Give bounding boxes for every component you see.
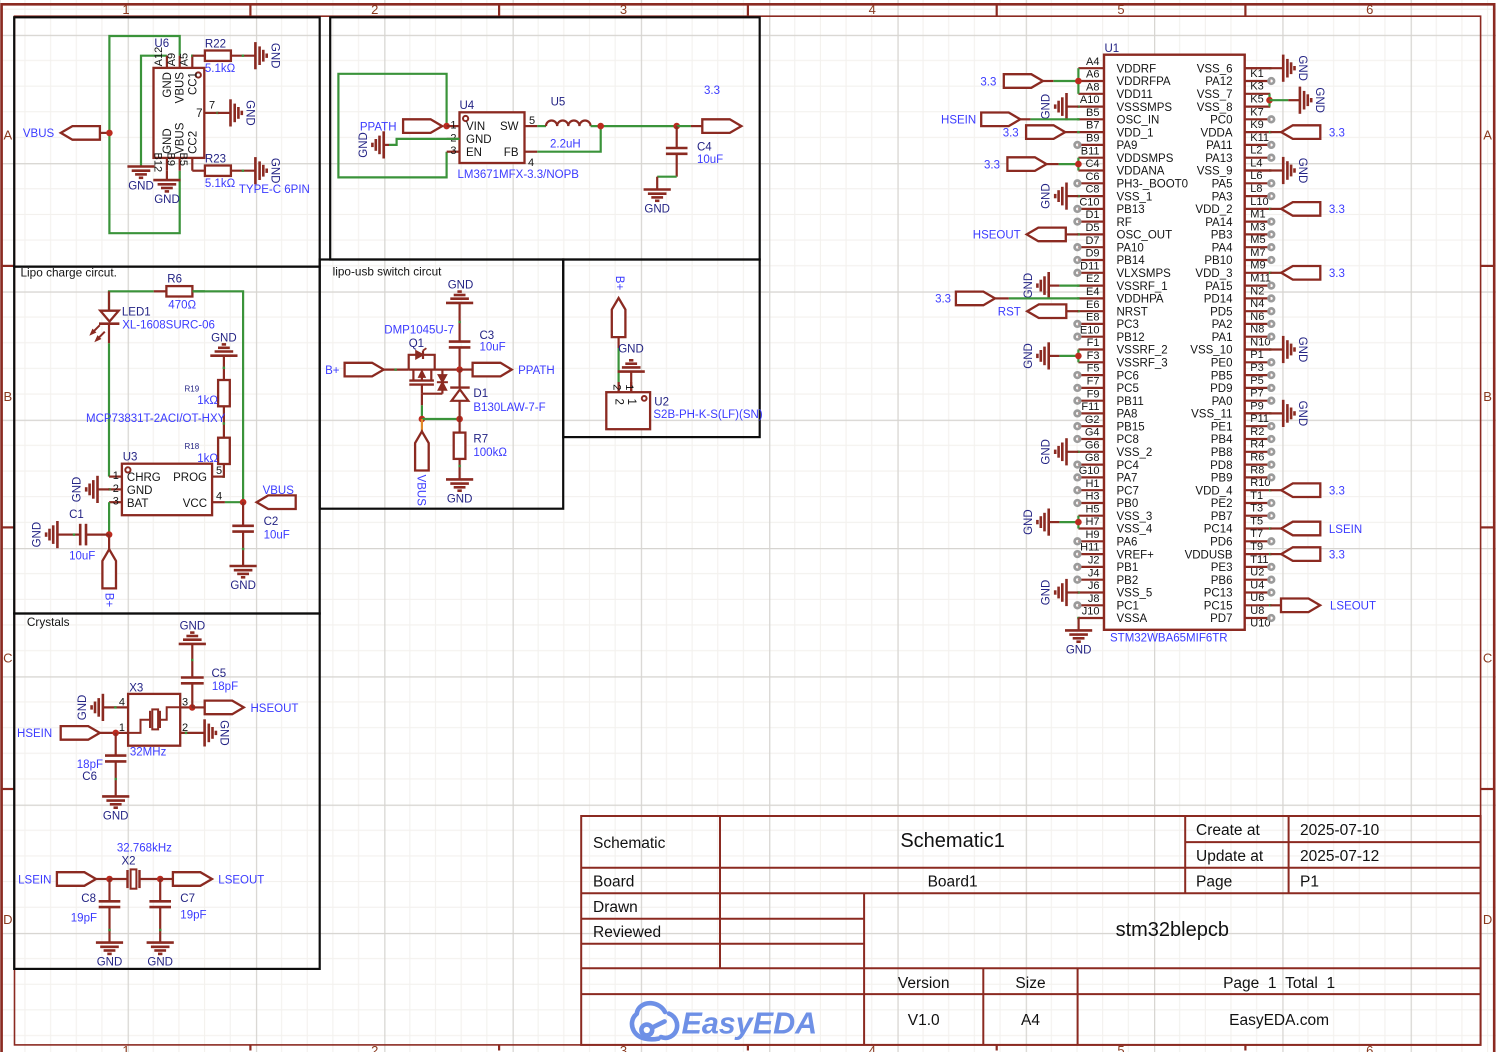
svg-text:VSS_9: VSS_9 <box>1197 166 1233 178</box>
svg-text:PA4: PA4 <box>1212 242 1233 254</box>
svg-text:LSEOUT: LSEOUT <box>218 875 264 887</box>
U1 pin U2 (PE3) <box>1245 566 1271 568</box>
U2 pin 2 <box>617 382 619 392</box>
wire GND pair K5-K7 <box>1268 94 1270 107</box>
U3 pin 1 CHRG <box>109 476 122 478</box>
svg-text:L10: L10 <box>1250 196 1268 208</box>
svg-text:PE2: PE2 <box>1211 498 1233 510</box>
svg-text:GND: GND <box>1066 644 1092 656</box>
capacitor C6 <box>115 733 117 756</box>
resistor R22 <box>192 55 205 57</box>
svg-text:PB13: PB13 <box>1117 204 1145 216</box>
svg-text:A10: A10 <box>1080 94 1100 106</box>
svg-text:L2: L2 <box>1250 145 1262 157</box>
svg-text:M11: M11 <box>1250 273 1271 285</box>
svg-text:VSSRF_2: VSSRF_2 <box>1117 345 1168 357</box>
svg-text:PE3: PE3 <box>1211 562 1233 574</box>
svg-text:Page: Page <box>1196 874 1232 891</box>
EasyEDA logo <box>632 1003 677 1039</box>
U1 pin B11 (VDDSMPS) <box>1078 157 1104 159</box>
U1 pin K3 (PA12) <box>1245 80 1271 82</box>
svg-text:2025-07-10: 2025-07-10 <box>1300 822 1380 839</box>
svg-text:U4: U4 <box>460 100 475 112</box>
svg-text:10uF: 10uF <box>264 529 290 541</box>
svg-text:PH3-_BOOT0: PH3-_BOOT0 <box>1117 179 1189 191</box>
capacitor C8 <box>108 879 110 901</box>
svg-text:P5: P5 <box>1250 375 1263 387</box>
svg-text:CHRG: CHRG <box>127 472 161 484</box>
svg-text:18pF: 18pF <box>77 759 103 771</box>
U1 pin A6 (VDDRFPA) <box>1078 80 1104 82</box>
U1 pin H9 (PA6) <box>1078 540 1104 542</box>
svg-text:T5: T5 <box>1250 515 1263 527</box>
svg-text:PE0: PE0 <box>1211 358 1233 370</box>
U1 pin U6 (PC13) <box>1245 591 1271 593</box>
svg-text:VCC: VCC <box>183 498 207 510</box>
net port B+ (battery) <box>102 549 116 588</box>
X3 pin 1 <box>116 732 128 734</box>
wire LED-R6-VCC net <box>109 291 154 310</box>
net port 3.3 at T9 (VDDUSB) <box>1269 553 1271 555</box>
U1 pin E8 (PC3) <box>1078 323 1104 325</box>
svg-text:A: A <box>1483 128 1492 143</box>
svg-text:VBUS: VBUS <box>23 128 55 140</box>
junction B11-C4 node <box>1075 161 1082 168</box>
svg-text:GND: GND <box>72 477 84 503</box>
junction SW-FB node <box>597 123 604 130</box>
X3 pin 3 <box>180 706 192 708</box>
svg-text:B7: B7 <box>1086 120 1099 132</box>
svg-text:5.1kΩ: 5.1kΩ <box>205 178 236 190</box>
svg-text:VDDHPA: VDDHPA <box>1117 294 1164 306</box>
U1 pin F9 (PB11) <box>1078 400 1104 402</box>
svg-text:VSSRF_3: VSSRF_3 <box>1117 358 1168 370</box>
U1 pin T5 (PB7) <box>1245 515 1271 517</box>
wire GND (U6 A12 to GND) <box>141 56 167 167</box>
resistor R19 vertical <box>223 356 225 380</box>
svg-text:Board1: Board1 <box>928 874 978 891</box>
U1 pin C6 (PH3-_BOOT0) <box>1078 182 1104 184</box>
svg-text:TYPE-C 6PIN: TYPE-C 6PIN <box>239 184 310 196</box>
svg-text:2: 2 <box>113 483 119 495</box>
svg-text:VSSSMPS: VSSSMPS <box>1117 102 1173 114</box>
svg-text:GND: GND <box>1023 273 1035 299</box>
svg-text:J6: J6 <box>1088 580 1100 592</box>
svg-text:U3: U3 <box>123 451 138 463</box>
ground GND at E2 <box>1077 284 1079 286</box>
svg-text:PC6: PC6 <box>1117 370 1139 382</box>
U6 pin 7 <box>204 112 217 114</box>
svg-text:10uF: 10uF <box>69 550 95 562</box>
svg-text:3.3: 3.3 <box>1329 204 1345 216</box>
svg-text:F5: F5 <box>1087 363 1100 375</box>
U1 pin T11 (VDDUSB) <box>1245 553 1271 555</box>
svg-text:M5: M5 <box>1250 234 1265 246</box>
svg-text:GND: GND <box>447 493 473 505</box>
svg-text:P11: P11 <box>1250 413 1269 425</box>
svg-text:CC1: CC1 <box>187 72 199 95</box>
svg-text:Lipo charge circut.: Lipo charge circut. <box>21 265 117 279</box>
svg-text:F7: F7 <box>1087 376 1100 388</box>
svg-text:K5: K5 <box>1250 94 1263 106</box>
svg-text:T3: T3 <box>1250 503 1263 515</box>
svg-text:PB7: PB7 <box>1211 511 1233 523</box>
U1 pin M5 (PB3) <box>1245 233 1271 235</box>
svg-text:J2: J2 <box>1088 555 1100 567</box>
svg-text:F3: F3 <box>1087 350 1100 362</box>
svg-text:PB11: PB11 <box>1117 396 1144 408</box>
U1 pin E2 (VSSRF_1) <box>1078 285 1104 287</box>
U1 pin T9 (PD6) <box>1245 540 1271 542</box>
U1 pin E6 (NRST) <box>1078 310 1104 312</box>
svg-text:K9: K9 <box>1250 119 1263 131</box>
svg-text:C6: C6 <box>1085 171 1099 183</box>
svg-text:A: A <box>3 128 12 143</box>
svg-text:Schematic1: Schematic1 <box>900 830 1005 852</box>
U1 pin H5 (VSS_3) <box>1078 515 1104 517</box>
svg-text:RST: RST <box>998 307 1021 319</box>
svg-text:VDDA: VDDA <box>1201 127 1233 139</box>
svg-text:C4: C4 <box>1085 158 1099 170</box>
ground GND at X3 pin2 <box>203 719 206 746</box>
svg-text:B5: B5 <box>1086 107 1099 119</box>
svg-text:VREF+: VREF+ <box>1117 549 1155 561</box>
svg-text:PC14: PC14 <box>1204 524 1233 536</box>
U1 pin L8 (PA5) <box>1245 182 1271 184</box>
wire GND pair H5-H7 <box>1077 516 1079 529</box>
U1 pin B5 (OSC_IN) <box>1078 118 1104 120</box>
U1 pin T3 (PE2) <box>1245 502 1271 504</box>
connector U6 TYPE-C body <box>154 68 205 158</box>
svg-text:Size: Size <box>1015 975 1045 992</box>
svg-text:M1: M1 <box>1250 209 1265 221</box>
svg-text:H1: H1 <box>1085 478 1099 490</box>
svg-text:GND: GND <box>97 957 123 969</box>
svg-text:J10: J10 <box>1082 606 1100 618</box>
net port LSEIN <box>57 872 96 886</box>
svg-text:C6: C6 <box>82 771 97 783</box>
U1 pin E10 (PB12) <box>1078 336 1104 338</box>
svg-text:GND: GND <box>1041 439 1053 465</box>
U1 pin P5 (PB5) <box>1245 374 1271 376</box>
svg-text:GND: GND <box>103 810 129 822</box>
U1 pin D1 (RF) <box>1078 221 1104 223</box>
junction A6 node <box>1075 78 1082 85</box>
svg-text:L6: L6 <box>1250 170 1262 182</box>
U1 pin F11 (PA8) <box>1078 412 1104 414</box>
svg-text:C1: C1 <box>69 509 84 521</box>
svg-text:7: 7 <box>196 108 202 120</box>
svg-text:D1: D1 <box>1085 209 1099 221</box>
ground GND at J6 <box>1077 591 1079 593</box>
title block table <box>581 816 1480 1045</box>
U1 pin U4 (PB6) <box>1245 579 1271 581</box>
svg-text:1: 1 <box>119 722 125 734</box>
svg-text:GND: GND <box>1023 509 1035 535</box>
U1 pin L6 (VSS_9) <box>1245 169 1271 171</box>
net port PPATH output <box>460 369 474 371</box>
IC U4 body <box>460 112 525 163</box>
svg-text:PA3: PA3 <box>1212 191 1233 203</box>
svg-text:U2: U2 <box>1250 567 1264 579</box>
net port 3.3 at M11 (VDD_3) <box>1269 272 1271 274</box>
svg-text:VDDANA: VDDANA <box>1117 166 1165 178</box>
net port VBUS at U3 <box>257 495 296 509</box>
ground GND at K1 (VSS_6) <box>1269 67 1271 69</box>
wire C4 to ground <box>657 176 677 178</box>
svg-text:G4: G4 <box>1085 427 1100 439</box>
svg-text:1: 1 <box>625 399 637 405</box>
junction VBUS node <box>106 130 113 137</box>
svg-text:B: B <box>1483 389 1492 404</box>
svg-text:OSC_IN: OSC_IN <box>1117 115 1160 127</box>
svg-text:10uF: 10uF <box>480 342 506 354</box>
U1 pin H11 (VREF+) <box>1078 553 1104 555</box>
svg-text:PA1: PA1 <box>1212 332 1233 344</box>
U3 pin 5 PROG <box>212 476 225 478</box>
svg-text:4: 4 <box>869 2 876 17</box>
svg-text:D1: D1 <box>473 388 488 400</box>
U1 pin F1 (VSSRF_2) <box>1078 348 1104 350</box>
svg-text:F9: F9 <box>1087 388 1100 400</box>
U1 pin K11 (VDDA) <box>1245 131 1271 133</box>
junction VCC node <box>240 499 247 506</box>
svg-text:A5: A5 <box>179 53 191 66</box>
net port VBUS <box>61 126 100 140</box>
svg-text:B130LAW-7-F: B130LAW-7-F <box>473 402 545 414</box>
svg-text:VSS_3: VSS_3 <box>1117 511 1153 523</box>
svg-text:H5: H5 <box>1085 503 1099 515</box>
net port 3.3 at M1 (VDD_2) <box>1269 208 1271 210</box>
U2 pin 1 <box>630 382 632 392</box>
svg-text:D9: D9 <box>1085 248 1099 260</box>
U1 pin F3 (VSSRF_3) <box>1078 361 1104 363</box>
svg-text:GND: GND <box>618 343 644 355</box>
U1 pin N2 (PA15) <box>1245 285 1271 287</box>
wire B+ to U2 pin 2 <box>617 337 619 348</box>
U1 pin L2 (PA11) <box>1245 144 1271 146</box>
svg-text:P7: P7 <box>1250 388 1263 400</box>
U1 pin U10 (PD7) <box>1245 617 1271 619</box>
ground GND at J10 (VSSA) <box>1077 617 1079 619</box>
svg-text:PB10: PB10 <box>1204 255 1232 267</box>
svg-text:2025-07-12: 2025-07-12 <box>1300 848 1379 865</box>
svg-text:U6: U6 <box>154 38 169 50</box>
svg-text:GND: GND <box>230 580 256 592</box>
U3 pin 2 GND <box>109 488 122 490</box>
capacitor C7 <box>159 879 161 901</box>
svg-text:PA11: PA11 <box>1206 140 1232 152</box>
net port PPATH input <box>403 119 442 133</box>
svg-text:GND: GND <box>180 620 206 632</box>
svg-text:GND: GND <box>218 720 230 746</box>
svg-text:R22: R22 <box>205 39 226 51</box>
svg-text:B+: B+ <box>102 593 114 608</box>
U4 pin 2 GND <box>447 138 460 140</box>
svg-text:D11: D11 <box>1080 260 1099 272</box>
svg-text:3.3: 3.3 <box>935 294 951 306</box>
svg-text:PD14: PD14 <box>1204 294 1233 306</box>
svg-text:PC4: PC4 <box>1117 460 1140 472</box>
svg-text:Reviewed: Reviewed <box>593 924 661 941</box>
svg-text:C5: C5 <box>212 668 227 680</box>
U1 pin D5 (OSC_OUT) <box>1078 233 1104 235</box>
svg-text:PA9: PA9 <box>1117 140 1138 152</box>
svg-text:EasyEDA: EasyEDA <box>682 1007 818 1041</box>
svg-text:P3: P3 <box>1250 362 1263 374</box>
U1 pin N10 (PA1) <box>1245 336 1271 338</box>
svg-text:VDD11: VDD11 <box>1117 89 1153 101</box>
svg-text:32.768kHz: 32.768kHz <box>117 842 172 854</box>
svg-text:U8: U8 <box>1250 605 1264 617</box>
U1 pin G6 (VSS_2) <box>1078 451 1104 453</box>
ground GND under C7 <box>147 941 174 944</box>
svg-text:GND: GND <box>644 204 670 216</box>
svg-text:PB9: PB9 <box>1211 473 1233 485</box>
svg-text:PB3: PB3 <box>1211 230 1233 242</box>
X3 pin 4 <box>104 706 128 708</box>
svg-text:RF: RF <box>1117 217 1132 229</box>
svg-text:3.3: 3.3 <box>704 85 720 97</box>
svg-text:GND: GND <box>1296 337 1308 363</box>
net port 3.3 at B11/C4 <box>1059 163 1079 165</box>
svg-text:PC15: PC15 <box>1204 601 1233 613</box>
U4 pin 3 EN <box>447 151 460 153</box>
ground GND at F1/F3 <box>1059 355 1078 357</box>
svg-text:GND: GND <box>32 522 44 548</box>
svg-text:OSC_OUT: OSC_OUT <box>1117 230 1173 242</box>
wire R18 to U3 PROG <box>224 464 225 477</box>
svg-text:PA14: PA14 <box>1205 217 1233 229</box>
svg-text:C8: C8 <box>81 893 96 905</box>
svg-text:A4: A4 <box>1021 1012 1040 1029</box>
net port 3.3 at B7 <box>1065 131 1078 133</box>
svg-text:D7: D7 <box>1085 235 1099 247</box>
U1 pin P7 (PD9) <box>1245 387 1271 389</box>
junction gate node <box>419 416 426 423</box>
U1 pin G10 (PA7) <box>1078 476 1104 478</box>
svg-text:VDD_4: VDD_4 <box>1195 485 1233 497</box>
svg-text:H9: H9 <box>1085 529 1099 541</box>
svg-text:EasyEDA.com: EasyEDA.com <box>1229 1012 1329 1029</box>
svg-text:P9: P9 <box>1250 400 1263 412</box>
svg-text:VSS_7: VSS_7 <box>1197 89 1233 101</box>
svg-text:R4: R4 <box>1250 439 1264 451</box>
U6 pin A5 <box>191 56 193 68</box>
svg-text:VSS_11: VSS_11 <box>1191 409 1232 421</box>
svg-text:VSS_2: VSS_2 <box>1117 447 1153 459</box>
U1 pin U8 (PC15) <box>1245 604 1271 606</box>
U1 pin A10 (VSSSMPS) <box>1078 105 1104 107</box>
svg-text:C: C <box>1483 651 1492 666</box>
svg-text:U2: U2 <box>654 397 669 409</box>
svg-text:PB14: PB14 <box>1117 255 1146 267</box>
X3 internal crystal symbol <box>128 720 150 733</box>
svg-text:GND: GND <box>244 100 256 126</box>
U1 pin J10 (VSSA) <box>1078 617 1104 619</box>
U6 pin B9 <box>179 158 181 171</box>
wire SW node to FB and output <box>591 125 677 127</box>
svg-text:PC1: PC1 <box>1117 601 1139 613</box>
svg-text:PC7: PC7 <box>1117 485 1139 497</box>
svg-text:PD7: PD7 <box>1210 613 1232 625</box>
U4 pin 4 FB <box>525 151 538 153</box>
svg-text:GND: GND <box>448 280 474 292</box>
svg-text:VSSA: VSSA <box>1117 613 1148 625</box>
svg-text:B+: B+ <box>613 276 625 291</box>
junction B+ node <box>106 531 113 538</box>
svg-text:FB: FB <box>504 147 519 159</box>
U1 pin G2 (PB15) <box>1078 425 1104 427</box>
svg-text:C2: C2 <box>264 516 279 528</box>
svg-text:4: 4 <box>528 157 534 169</box>
resistor R7 vertical <box>459 419 461 433</box>
svg-text:3.3: 3.3 <box>1003 127 1019 139</box>
svg-text:PD8: PD8 <box>1210 460 1232 472</box>
ground GND at A10 <box>1077 105 1079 107</box>
svg-text:VSS_8: VSS_8 <box>1197 102 1233 114</box>
svg-text:GND: GND <box>1296 55 1308 81</box>
junction LSEOUT node <box>157 876 164 883</box>
capacitor C1 <box>86 533 109 535</box>
net port HSEOUT <box>192 706 205 708</box>
net port LSEOUT at U6 pin (PC15) <box>1269 604 1271 606</box>
svg-text:Page 1 Total 1: Page 1 Total 1 <box>1223 975 1335 992</box>
svg-text:19pF: 19pF <box>180 909 206 921</box>
svg-text:J8: J8 <box>1088 593 1100 605</box>
svg-text:3: 3 <box>450 145 456 157</box>
svg-text:K3: K3 <box>1250 81 1263 93</box>
svg-text:GND: GND <box>1296 158 1308 184</box>
wire VBUS loop (U6 A9/B9 to VBUS port) <box>109 36 179 233</box>
svg-text:PE1: PE1 <box>1211 421 1233 433</box>
svg-text:VLXSMPS: VLXSMPS <box>1117 268 1172 280</box>
svg-text:B+: B+ <box>325 365 340 377</box>
svg-text:19pF: 19pF <box>71 913 97 925</box>
ground GND at U4 pin2 <box>384 144 389 146</box>
crystal X3 body <box>128 694 180 746</box>
U1 pin R10 (PB9) <box>1245 476 1271 478</box>
U1 pin K9 (PC0) <box>1245 118 1271 120</box>
svg-text:Schematic: Schematic <box>593 835 666 852</box>
svg-text:5: 5 <box>216 465 222 477</box>
U1 pin D7 (PA10) <box>1078 246 1104 248</box>
wire output to 3.3 port <box>677 125 691 127</box>
svg-text:L4: L4 <box>1250 157 1262 169</box>
U1 pin P3 (PE0) <box>1245 361 1271 363</box>
svg-text:T1: T1 <box>1250 490 1263 502</box>
svg-text:S2B-PH-K-S(LF)(SN): S2B-PH-K-S(LF)(SN) <box>653 409 762 421</box>
wire VCC to VBUS <box>225 501 243 503</box>
svg-text:lipo-usb switch circut: lipo-usb switch circut <box>333 265 443 279</box>
U1 pin P1 (VSS_10) <box>1245 348 1271 350</box>
junction D1-R7 node <box>456 416 463 423</box>
U3 pin 4 VCC <box>212 501 225 503</box>
net port 3.3 at R10 (VDD_4) <box>1269 489 1271 491</box>
svg-text:PD9: PD9 <box>1210 383 1232 395</box>
svg-text:PA6: PA6 <box>1117 537 1138 549</box>
U6 pin A9 <box>179 56 181 68</box>
U1 pin A8 (VDD11) <box>1078 93 1104 95</box>
U1 pin M1 (VDD_2) <box>1245 208 1271 210</box>
svg-text:GND: GND <box>1313 87 1325 113</box>
svg-text:Version: Version <box>898 975 950 992</box>
svg-text:R18: R18 <box>185 442 200 451</box>
ground GND at U6 pin 7 <box>216 112 218 114</box>
svg-text:470Ω: 470Ω <box>168 299 196 311</box>
svg-text:C7: C7 <box>180 893 195 905</box>
svg-text:EN: EN <box>466 147 482 159</box>
